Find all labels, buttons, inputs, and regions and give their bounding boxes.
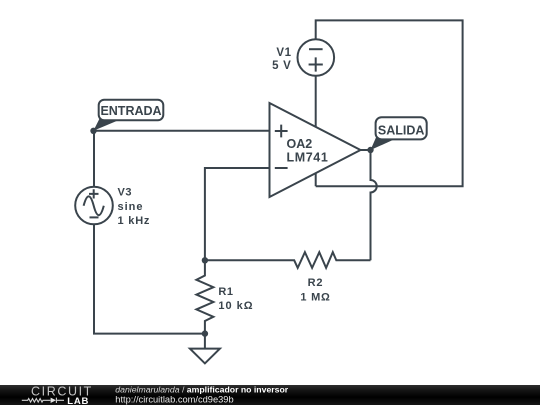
svg-text:5 V: 5 V xyxy=(272,60,291,72)
svg-text:10 kΩ: 10 kΩ xyxy=(218,300,253,312)
svg-text:V1: V1 xyxy=(276,47,291,59)
svg-text:V3: V3 xyxy=(118,186,133,198)
svg-text:LAB: LAB xyxy=(67,396,89,405)
svg-text:1 MΩ: 1 MΩ xyxy=(300,291,330,303)
svg-text:SALIDA: SALIDA xyxy=(378,123,425,137)
svg-text:1 kHz: 1 kHz xyxy=(118,215,151,227)
svg-text:R2: R2 xyxy=(308,277,324,289)
svg-text:ENTRADA: ENTRADA xyxy=(100,104,161,118)
svg-text:danielmarulanda / amplificador: danielmarulanda / amplificador no invers… xyxy=(115,385,288,395)
svg-text:http://circuitlab.com/cd9e39b: http://circuitlab.com/cd9e39b xyxy=(115,394,233,404)
svg-text:LM741: LM741 xyxy=(287,151,329,165)
svg-text:R1: R1 xyxy=(218,286,233,298)
svg-text:OA2: OA2 xyxy=(287,137,313,151)
svg-text:sine: sine xyxy=(118,201,144,213)
